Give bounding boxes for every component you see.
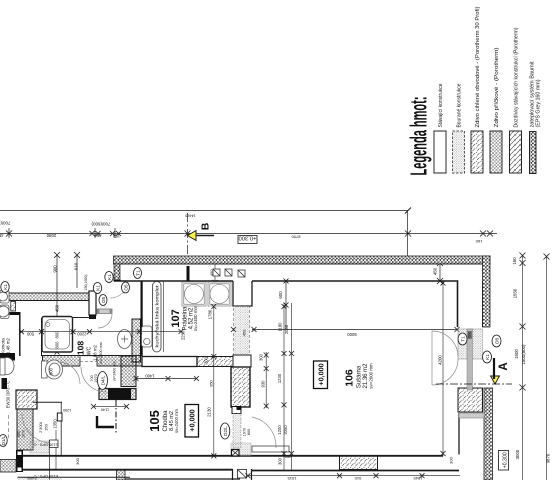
svg-text:Bourané konstrukce: Bourané konstrukce — [457, 84, 463, 128]
svg-text:1140: 1140 — [101, 408, 109, 412]
svg-text:1780: 1780 — [208, 309, 213, 319]
svg-text:2050: 2050 — [284, 324, 289, 334]
svg-text:3000: 3000 — [515, 449, 520, 459]
svg-text:1250: 1250 — [63, 408, 71, 412]
svg-text:450: 450 — [209, 269, 214, 276]
svg-text:Zdivo příčkové - (Porotherm): Zdivo příčkové - (Porotherm) — [494, 47, 500, 127]
svg-text:610: 610 — [74, 262, 79, 270]
svg-text:sv=2400 mm: sv=2400 mm — [99, 342, 103, 364]
svg-text:sv=2400 mm: sv=2400 mm — [113, 361, 117, 381]
svg-text:O8: O8 — [494, 337, 499, 344]
svg-text:1350: 1350 — [53, 419, 58, 429]
svg-text:5000: 5000 — [347, 332, 357, 337]
svg-text:A: A — [498, 362, 510, 370]
svg-text:106: 106 — [344, 369, 356, 387]
svg-text:T1: T1 — [460, 336, 465, 342]
svg-text:160: 160 — [475, 239, 482, 244]
svg-text:2080: 2080 — [46, 233, 56, 238]
svg-text:sv=2600 mm: sv=2600 mm — [369, 363, 374, 389]
svg-text:930: 930 — [260, 380, 265, 388]
svg-text:14420: 14420 — [185, 213, 196, 217]
svg-text:107: 107 — [170, 309, 182, 327]
svg-text:B: B — [200, 222, 212, 230]
svg-text:1500(800): 1500(800) — [521, 344, 526, 365]
svg-text:300: 300 — [449, 456, 454, 463]
svg-text:450: 450 — [0, 233, 4, 238]
svg-text:+0,300: +0,300 — [502, 452, 508, 468]
svg-text:1915: 1915 — [287, 476, 297, 480]
svg-text:910: 910 — [354, 476, 361, 480]
svg-text:O5: O5 — [123, 284, 128, 291]
svg-text:450: 450 — [433, 267, 438, 275]
svg-text:E130 DP3 - C: E130 DP3 - C — [34, 443, 59, 448]
svg-text:150: 150 — [44, 423, 49, 430]
svg-text:105: 105 — [147, 410, 162, 432]
svg-text:1230: 1230 — [277, 373, 282, 383]
svg-text:D1/L: D1/L — [1, 435, 6, 445]
svg-text:800: 800 — [17, 431, 21, 437]
svg-text:D4/L: D4/L — [100, 375, 105, 385]
svg-text:Stávající konstrukce: Stávající konstrukce — [438, 84, 444, 128]
svg-text:K1: K1 — [485, 354, 490, 360]
svg-text:300: 300 — [284, 454, 291, 459]
svg-text:108: 108 — [76, 341, 86, 355]
svg-text:1550: 1550 — [513, 288, 518, 298]
svg-text:300: 300 — [204, 356, 209, 364]
svg-text:1500: 1500 — [514, 349, 519, 359]
svg-text:O5: O5 — [101, 296, 106, 303]
svg-text:300: 300 — [278, 457, 283, 465]
svg-text:1400: 1400 — [145, 374, 155, 379]
svg-text:700/(600): 700/(600) — [91, 222, 110, 227]
svg-text:600: 600 — [468, 332, 472, 338]
svg-text:K1: K1 — [95, 285, 100, 291]
svg-text:2200: 2200 — [77, 331, 87, 336]
svg-text:sv=2400 mm: sv=2400 mm — [174, 408, 179, 433]
svg-text:Zdivo cihlené obvodové - (Poro: Zdivo cihlené obvodové - (Porotherm 30 P… — [475, 6, 481, 127]
svg-text:2'450/: 2'450/ — [26, 476, 37, 480]
svg-text:150: 150 — [112, 234, 120, 239]
svg-text:2050: 2050 — [283, 425, 288, 435]
svg-text:1945: 1945 — [413, 476, 423, 480]
svg-text:1200: 1200 — [277, 425, 282, 435]
svg-text:500: 500 — [26, 331, 34, 336]
svg-text:1970: 1970 — [243, 428, 247, 436]
svg-text:1970: 1970 — [22, 430, 26, 438]
svg-text:700/(600): 700/(600) — [0, 221, 10, 226]
svg-text:150(1600): 150(1600) — [84, 275, 88, 291]
svg-text:2250: 2250 — [180, 330, 185, 340]
svg-text:160: 160 — [512, 257, 517, 265]
svg-text:1.48 m2: 1.48 m2 — [6, 338, 11, 354]
svg-text:Sušárna: Sušárna — [357, 365, 363, 388]
svg-text:4200: 4200 — [438, 355, 443, 365]
svg-text:K1: K1 — [107, 274, 112, 280]
svg-text:300: 300 — [75, 457, 80, 464]
svg-text:300: 300 — [259, 353, 264, 361]
svg-text:1180: 1180 — [278, 322, 283, 332]
svg-text:(EPS Grey 160 mm): (EPS Grey 160 mm) — [536, 79, 542, 127]
svg-text:+0,000: +0,000 — [188, 409, 197, 431]
svg-text:Legenda hmot:: Legenda hmot: — [406, 97, 432, 176]
svg-text:T1: T1 — [135, 270, 140, 276]
svg-text:kuchyňská linka komplet: kuchyňská linka komplet — [155, 285, 160, 348]
svg-text:sv=2400 mm: sv=2400 mm — [193, 306, 198, 332]
svg-text:900: 900 — [49, 367, 54, 375]
svg-text:600: 600 — [278, 291, 283, 299]
svg-text:2130: 2130 — [207, 407, 212, 417]
svg-text:EW30 DP3 - C: EW30 DP3 - C — [6, 381, 11, 408]
svg-text:8750: 8750 — [291, 235, 301, 240]
svg-text:900: 900 — [53, 265, 58, 273]
svg-text:2'300/: 2'300/ — [38, 421, 43, 433]
svg-text:450: 450 — [242, 329, 247, 336]
svg-text:800: 800 — [247, 429, 251, 435]
svg-text:850: 850 — [210, 380, 214, 386]
svg-text:D2/L: D2/L — [223, 426, 228, 436]
svg-text:K1: K1 — [3, 284, 8, 290]
svg-text:+0,300: +0,300 — [239, 235, 257, 241]
svg-text:450: 450 — [94, 233, 102, 238]
svg-text:9870: 9870 — [546, 453, 551, 463]
svg-text:Dozdívky stávajících konstrukc: Dozdívky stávajících konstrukcí (Porothe… — [514, 27, 520, 127]
svg-text:800: 800 — [55, 331, 60, 339]
svg-text:+0,000: +0,000 — [317, 363, 326, 385]
svg-text:450: 450 — [55, 304, 60, 312]
svg-text:800: 800 — [55, 341, 60, 349]
svg-text:1.88 m2: 1.88 m2 — [93, 345, 98, 361]
